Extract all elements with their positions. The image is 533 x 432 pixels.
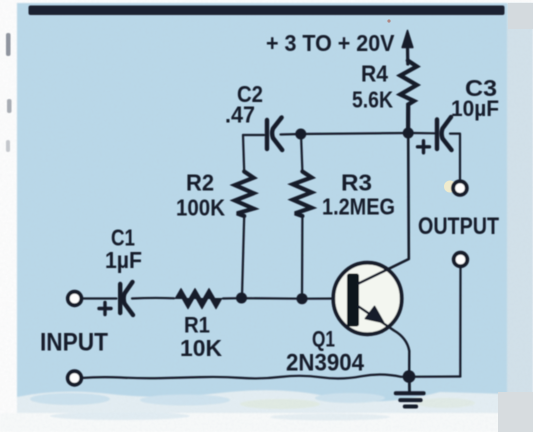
svg-text:5.6K: 5.6K [352,87,393,113]
svg-text:1µF: 1µF [105,247,142,273]
svg-text:+ 3 TO + 20V: + 3 TO + 20V [266,30,395,56]
resistor R1 (solid triangles) [175,289,215,299]
right edge light strip [507,3,533,412]
C3 plus sign [418,141,430,153]
red speck top [387,19,390,22]
supply arrow [406,46,409,64]
bottom-right grey mottle [498,392,533,432]
node A junction dot [236,293,247,304]
output label [418,213,499,240]
wire R1 to base [223,297,347,300]
input label [40,329,108,357]
collector wire [359,133,409,284]
input terminal top [68,292,82,306]
svg-text:10µF: 10µF [451,96,499,121]
wire C1 to R1 [132,297,174,300]
transistor Q1 [333,263,401,335]
top border bar [29,6,505,16]
output terminal lower [454,253,468,267]
capacitor C1 [118,284,122,313]
capacitor C3 [435,120,439,150]
bottom white strip [0,413,533,432]
bottom rail wire [81,375,460,379]
left scan mark 3 [6,140,10,152]
svg-text:R4: R4 [361,61,388,87]
wire R3 branch [301,134,302,296]
svg-text:Q1: Q1 [312,327,335,352]
cream smudge left of upper output terminal [444,181,456,193]
ground symbol [408,377,411,392]
svg-text:10K: 10K [180,335,222,361]
svg-text:INPUT: INPUT [40,329,108,357]
svg-text:2N3904: 2N3904 [286,350,365,377]
resistor R3 [293,172,312,217]
supply label [266,30,395,56]
capacitor C2 [265,120,269,149]
wire output lower to bottom rail [459,266,461,377]
svg-text:.47: .47 [225,102,255,128]
left scan mark 1 [6,33,11,56]
svg-text:R2: R2 [186,170,214,196]
emitter wire [359,307,410,372]
wire C3 to upper output terminal [450,134,460,181]
wire top rail [243,133,435,135]
top-right grey mottle [508,3,533,29]
emitter arrowhead [366,307,384,323]
svg-text:100K: 100K [176,195,225,221]
resistor R4 [400,61,417,130]
left scan mark 2 [7,99,12,113]
ground junction dot [403,370,416,383]
input terminal bottom [68,371,82,385]
svg-text:1.2MEG: 1.2MEG [322,194,395,220]
output terminal upper [453,181,467,195]
wire R2 branch [242,135,244,296]
node V+ junction dot [403,128,414,139]
resistor R2 [235,172,254,217]
node C2 junction dot [295,129,306,140]
node B junction dot [297,293,308,304]
wire input terminal to C1 [82,297,117,299]
svg-text:R1: R1 [184,313,210,338]
svg-text:OUTPUT: OUTPUT [418,213,499,240]
svg-text:R3: R3 [341,170,372,196]
bottom mottled scan edge band [17,390,507,415]
C1 plus sign [99,303,111,315]
